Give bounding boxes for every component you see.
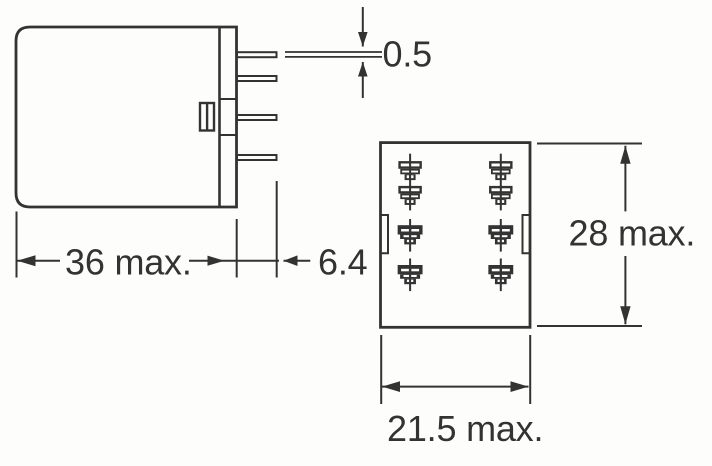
svg-text:6.4: 6.4 xyxy=(318,242,367,283)
svg-text:21.5 max.: 21.5 max. xyxy=(387,408,543,449)
28 max dim line lower with arrow xyxy=(620,256,630,324)
label 0.5 xyxy=(383,33,432,74)
36 max extension line left xyxy=(16,212,18,278)
6.4 extension line right xyxy=(276,181,278,278)
label 6.4 xyxy=(318,242,367,283)
terminal pin row1 right xyxy=(490,162,511,180)
svg-text:28 max.: 28 max. xyxy=(569,212,696,253)
28 max extension line bottom xyxy=(537,325,642,327)
base strip divider upper xyxy=(220,98,237,100)
36 max dim line left with arrow xyxy=(17,255,60,266)
terminal pin row3 left xyxy=(398,225,423,244)
36 max extension line right xyxy=(236,219,238,278)
36 max dim line right with arrow xyxy=(189,256,279,266)
label 28 max xyxy=(569,212,696,253)
terminal pin row3 right xyxy=(488,225,513,244)
svg-text:36 max.: 36 max. xyxy=(65,242,192,283)
0.5 dim: lower arrow (up) xyxy=(358,62,368,77)
label 36 max xyxy=(65,242,192,283)
0.5 dim: upper arrow (down) xyxy=(358,32,368,47)
left notch xyxy=(381,215,389,253)
centerline row4 right xyxy=(500,259,502,292)
6.4 dim arrow line xyxy=(284,255,311,266)
centerline rows1-2 left xyxy=(409,154,411,211)
latch detail on body xyxy=(200,103,214,131)
centerline row3 left xyxy=(409,219,411,252)
relay body outline (side view) xyxy=(16,27,237,207)
centerline rows1-2 right xyxy=(500,154,502,211)
28 max extension line top xyxy=(537,143,642,145)
0.5 dim: pin edge extension lines xyxy=(285,52,382,57)
relay base inner edge line xyxy=(218,27,221,207)
svg-text:0.5: 0.5 xyxy=(383,33,432,74)
0.5 dim: vertical line upper xyxy=(362,7,364,47)
21.5 max dim line with arrows xyxy=(382,381,529,392)
centerline row3 right xyxy=(500,219,502,252)
28 max dim line upper with arrow xyxy=(620,146,630,212)
right notch xyxy=(523,215,531,253)
terminal pin row4 right xyxy=(488,265,513,284)
centerline row4 left xyxy=(409,259,411,292)
pin 2 (side view) xyxy=(237,76,277,81)
base strip divider lower xyxy=(220,134,237,136)
0.5 dim: vertical line lower xyxy=(362,62,364,98)
terminal pin row1 left xyxy=(400,162,421,180)
label 21.5 max xyxy=(387,408,543,449)
21.5 max extension line right xyxy=(529,335,531,404)
terminal pin row2 left xyxy=(400,187,421,205)
21.5 max extension line left xyxy=(380,335,382,404)
pin 3 (side view) xyxy=(237,115,277,120)
terminal pin row2 right xyxy=(490,187,511,205)
pin 4 (side view) xyxy=(237,155,277,160)
terminal pin row4 left xyxy=(398,265,423,284)
pin 1 (side view) xyxy=(237,52,277,57)
socket body rectangle (bottom view) xyxy=(381,143,531,328)
